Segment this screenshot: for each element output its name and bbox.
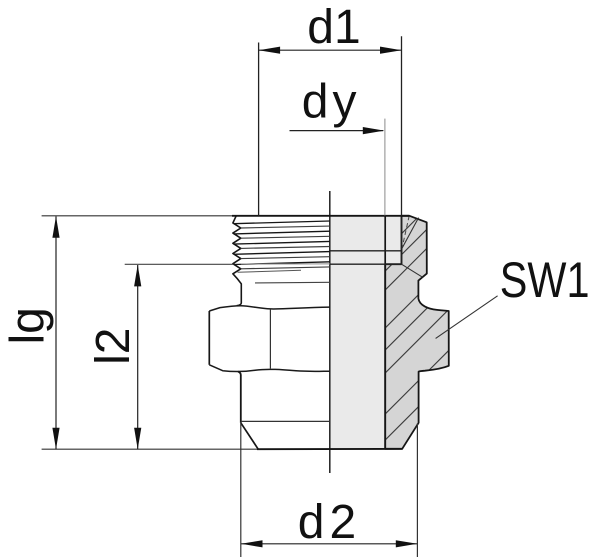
body top edge [232, 215, 409, 217]
dimension d2 label [298, 496, 361, 549]
sectioned material fill [385, 216, 449, 449]
svg-text:dy: dy [302, 76, 361, 129]
bore light fill [330, 216, 402, 449]
hex top edge [209, 306, 329, 311]
cone transition line [402, 264, 423, 277]
thread runout slant dashed [402, 216, 409, 247]
d1 right extension line [401, 36, 403, 216]
svg-text:l2: l2 [87, 328, 140, 365]
centerline [329, 191, 331, 473]
thread runout line left [241, 263, 330, 265]
hex facet line [269, 309, 271, 368]
dimension d1 line [259, 47, 402, 54]
lower cylinder edge [238, 372, 241, 423]
svg-text:SW1: SW1 [500, 251, 590, 308]
hex left face [208, 311, 210, 365]
dimension d1 label [307, 1, 360, 54]
d1 left extension line [258, 43, 260, 216]
svg-text:lg: lg [2, 307, 55, 344]
dimension l2 line [134, 265, 141, 449]
thread runout slant solid [402, 218, 419, 249]
bottom cone silhouette [241, 423, 258, 449]
body bottom edge [257, 448, 402, 450]
dimension lg label [2, 307, 55, 344]
svg-text:d1: d1 [307, 1, 360, 54]
dimension d2 line [241, 540, 417, 547]
thread end line in section [330, 263, 402, 265]
thread helix lines [234, 221, 330, 272]
dimension dy line [290, 127, 385, 134]
SW1 label [500, 251, 590, 308]
sectioned material outline [385, 216, 449, 449]
thread root vertical in section [401, 216, 403, 264]
lg bottom extension line [42, 448, 257, 450]
bore wall line [384, 216, 386, 449]
d2 right extension line [416, 424, 418, 558]
d2 left extension line [240, 423, 242, 557]
counterbore step line [330, 250, 402, 252]
dimension dy label [302, 76, 361, 129]
hex bottom chamfer [209, 365, 329, 372]
lg top extension line [42, 215, 232, 217]
bottom chamfer start line [241, 420, 330, 422]
svg-text:d2: d2 [298, 496, 361, 549]
dy extension line [384, 119, 386, 216]
dimension lg line [52, 216, 59, 449]
hatch lines [265, 110, 525, 558]
l2 top extension line [125, 263, 234, 265]
dimension l2 label [87, 328, 140, 365]
thread crest zigzag profile [233, 216, 241, 306]
thread undercut line [255, 281, 330, 284]
SW1 leader line [436, 296, 498, 339]
